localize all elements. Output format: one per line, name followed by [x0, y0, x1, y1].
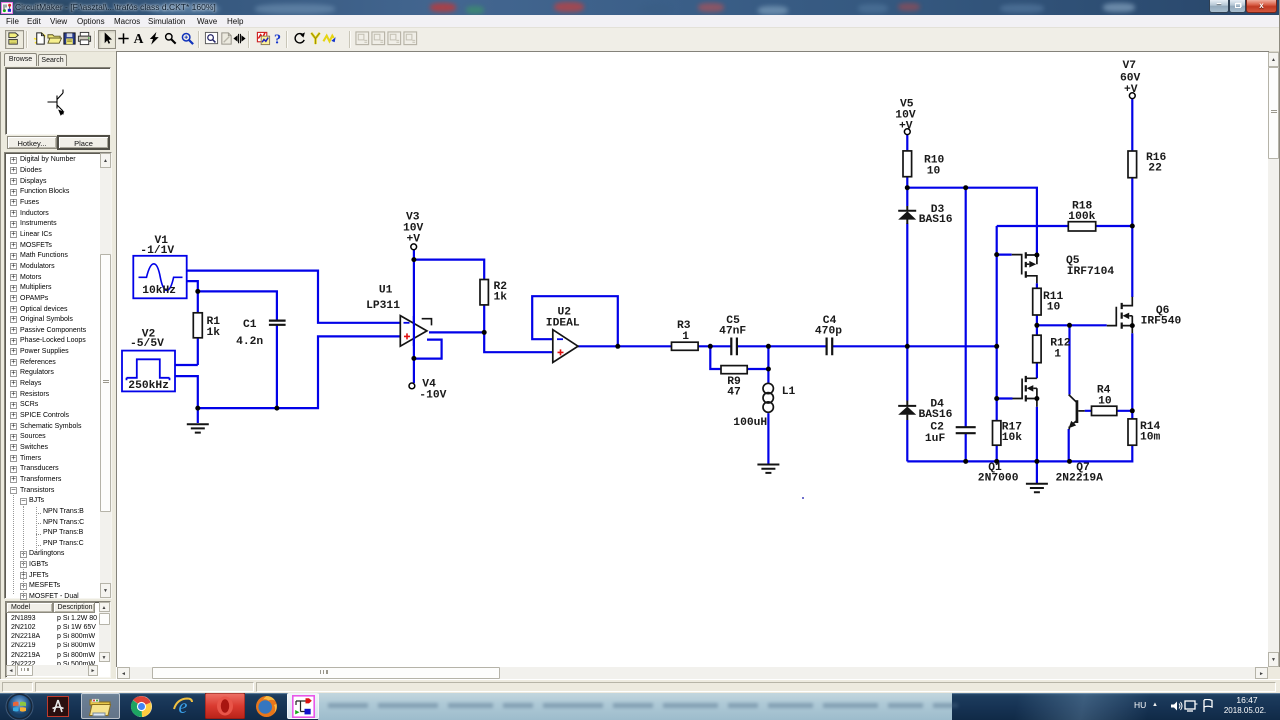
- svg-text:LP311: LP311: [366, 300, 400, 312]
- svg-text:IRF7104: IRF7104: [1067, 266, 1115, 278]
- svg-text:-10V: -10V: [419, 390, 446, 402]
- svg-text:C2: C2: [930, 422, 944, 434]
- svg-text:60V: 60V: [1120, 73, 1141, 85]
- svg-text:1: 1: [682, 331, 689, 343]
- svg-text:4.2n: 4.2n: [236, 336, 263, 348]
- svg-text:1k: 1k: [207, 327, 221, 339]
- svg-text:IDEAL: IDEAL: [546, 317, 580, 329]
- svg-text:47nF: 47nF: [719, 326, 746, 338]
- svg-text:1: 1: [1054, 348, 1061, 360]
- svg-text:10k: 10k: [1002, 432, 1023, 444]
- svg-text:+V: +V: [899, 121, 913, 133]
- svg-text:100uH: 100uH: [733, 417, 767, 429]
- svg-text:100k: 100k: [1068, 211, 1095, 223]
- svg-text:2N2219A: 2N2219A: [1056, 472, 1104, 484]
- svg-text:1k: 1k: [494, 292, 508, 304]
- svg-text:47: 47: [727, 387, 741, 399]
- svg-text:BAS16: BAS16: [919, 214, 953, 226]
- svg-text:BAS16: BAS16: [919, 409, 953, 421]
- svg-text:IRF540: IRF540: [1141, 315, 1182, 327]
- svg-text:470p: 470p: [815, 326, 842, 338]
- svg-text:-1/1V: -1/1V: [140, 245, 174, 257]
- svg-text:U1: U1: [379, 285, 393, 297]
- svg-text:+V: +V: [1124, 84, 1138, 96]
- svg-text:2N7000: 2N7000: [978, 472, 1019, 484]
- svg-text:L1: L1: [782, 386, 796, 398]
- svg-text:1uF: 1uF: [925, 433, 946, 445]
- svg-text:10: 10: [1047, 302, 1061, 314]
- svg-text:10: 10: [1098, 396, 1112, 408]
- svg-text:10m: 10m: [1140, 432, 1161, 444]
- svg-text:22: 22: [1148, 163, 1162, 175]
- svg-text:10kHz: 10kHz: [142, 285, 176, 297]
- svg-text:+V: +V: [407, 234, 421, 246]
- svg-text:10: 10: [927, 165, 941, 177]
- svg-text:250kHz: 250kHz: [128, 380, 169, 392]
- svg-text:C1: C1: [243, 319, 257, 331]
- svg-text:V7: V7: [1123, 60, 1137, 72]
- svg-text:-5/5V: -5/5V: [130, 338, 164, 350]
